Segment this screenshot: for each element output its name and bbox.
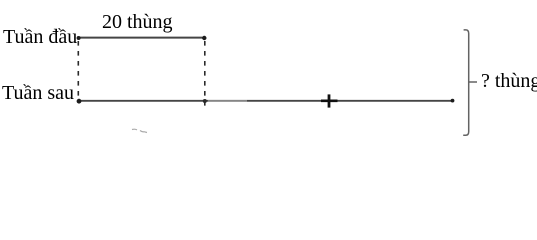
brace total (463, 30, 469, 135)
crossing dot at dashed guide (203, 99, 207, 103)
dashed guide right (204, 41, 206, 106)
faint watermark squiggle A (132, 128, 137, 131)
faint watermark squiggle B (140, 131, 147, 133)
bar first week left end dot (77, 36, 81, 40)
plus tick on second bar (328, 94, 331, 107)
dashed guide left (77, 41, 79, 101)
bar first week right end dot (202, 36, 206, 40)
bar second week right end dot (451, 99, 455, 103)
brace pointer (469, 81, 477, 83)
label ? thùng (481, 71, 537, 91)
faded watermark patch on second bar (208, 100, 247, 102)
label Tuần đầu (3, 27, 77, 47)
bar first week (78, 37, 205, 39)
bar second week left end dot (77, 99, 82, 104)
label Tuần sau (2, 83, 74, 103)
label 20 thùng (102, 12, 173, 32)
bar second week (78, 100, 453, 102)
